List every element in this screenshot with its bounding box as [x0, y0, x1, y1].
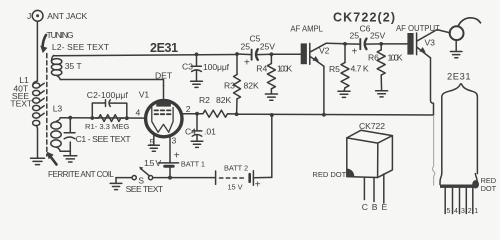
svg-text:R2: R2 [199, 95, 210, 105]
svg-text:4.7 K: 4.7 K [351, 64, 369, 74]
pin 2 lead [182, 113, 198, 115]
svg-text:2: 2 [468, 208, 472, 215]
svg-text:FERRITE ANT COIL: FERRITE ANT COIL [48, 170, 115, 179]
svg-text:SEE TEXT: SEE TEXT [126, 184, 164, 194]
tube V1 2E31 [146, 86, 197, 163]
svg-text:TUNING: TUNING [47, 30, 74, 40]
svg-text:V2: V2 [319, 46, 330, 56]
ground (R5) [338, 91, 350, 97]
filament [152, 108, 173, 133]
svg-text:25V: 25V [370, 31, 385, 41]
wire V2 collector [326, 42, 345, 45]
wire grid (DET) from L2 bottom to tube top [60, 80, 163, 86]
wire mid rail [237, 113, 434, 116]
resistor R6 100K [377, 42, 385, 91]
svg-text:2E31: 2E31 [150, 41, 178, 55]
svg-text:3: 3 [461, 208, 465, 215]
svg-text:E: E [382, 202, 388, 212]
ground (C3) [191, 81, 203, 87]
ground (R6) [376, 91, 388, 97]
svg-text:100μμf: 100μμf [203, 62, 230, 72]
svg-text:25: 25 [241, 41, 251, 51]
svg-text:V3: V3 [425, 38, 436, 48]
capacitor C1 [64, 118, 75, 156]
wire jack stem [36, 21, 38, 81]
battery BATT2 [216, 171, 272, 185]
svg-text:L2- SEE TEXT: L2- SEE TEXT [52, 42, 110, 52]
resistor R3 82K [234, 52, 241, 114]
transistor V3 [407, 30, 448, 58]
svg-text:ANT JACK: ANT JACK [47, 11, 87, 21]
svg-text:100K: 100K [277, 64, 292, 74]
inductor L1 [33, 81, 45, 158]
capacitor C2 [92, 100, 127, 118]
svg-text:L3: L3 [53, 104, 63, 114]
svg-text:4: 4 [136, 108, 141, 118]
wire BATT2 riser [271, 115, 273, 178]
output jack [449, 26, 464, 51]
phone cord curve [458, 18, 481, 27]
svg-text:.01: .01 [204, 127, 216, 137]
wire top rail [54, 55, 237, 56]
svg-text:25V: 25V [260, 41, 275, 51]
svg-text:CK722: CK722 [359, 121, 385, 131]
svg-text:+: + [352, 47, 358, 58]
transistor V2 [301, 43, 327, 66]
node R2/R3 [235, 112, 239, 116]
ground (C4) [191, 141, 203, 147]
svg-text:+: + [255, 180, 261, 191]
svg-text:C6: C6 [360, 24, 371, 34]
ground (pin5) [148, 145, 159, 151]
battery BATT1 [159, 162, 179, 178]
inductor L3 [51, 118, 61, 152]
svg-text:1.5 V: 1.5 V [144, 158, 161, 168]
svg-text:J: J [27, 11, 31, 21]
svg-text:AF OUTPUT: AF OUTPUT [396, 24, 440, 33]
svg-text:82K: 82K [216, 95, 231, 105]
ground (jack) [450, 52, 462, 58]
svg-text:R4: R4 [256, 64, 267, 74]
svg-text:R5: R5 [329, 64, 340, 74]
faint fold line [432, 116, 434, 186]
resistor R1 3.3MEG [96, 115, 124, 122]
svg-text:DOT: DOT [481, 184, 497, 193]
red dot (tube) [472, 180, 479, 188]
ground (L1) [31, 158, 45, 164]
svg-text:82K: 82K [244, 81, 259, 91]
svg-text:4: 4 [454, 208, 458, 215]
svg-text:C3: C3 [182, 62, 193, 72]
plate [156, 102, 171, 107]
wire L3 bottom [60, 150, 70, 152]
capacitor C5 [237, 49, 271, 60]
node C2/R1 right [125, 116, 129, 120]
wire V3 emitter drop [431, 58, 434, 115]
resistor R5 4.7K [341, 42, 349, 91]
grid dashes [155, 110, 171, 114]
wire V3 base [381, 43, 407, 45]
jack J ANT JACK [32, 10, 43, 81]
svg-text:3: 3 [172, 136, 177, 146]
2E31 tube drawing [440, 84, 479, 214]
wire V2 emitter drop [323, 66, 325, 115]
capacitor C3 [192, 53, 202, 82]
svg-text:TEXT: TEXT [10, 99, 33, 109]
inductor L2 35T [51, 55, 61, 79]
svg-text:R6: R6 [368, 53, 379, 63]
svg-text:C: C [362, 202, 368, 212]
CK722 package [347, 130, 393, 203]
ferrite pointer arrow [50, 156, 56, 164]
pin 5 lead [153, 135, 155, 146]
svg-text:BATT 1: BATT 1 [181, 159, 205, 168]
resistor R2 82K [197, 110, 237, 117]
svg-text:25: 25 [350, 31, 360, 41]
svg-text:5: 5 [150, 137, 155, 147]
pin 3 lead [169, 136, 171, 162]
tube pins [444, 188, 446, 214]
svg-text:AF AMPL: AF AMPL [290, 25, 323, 34]
svg-text:+: + [174, 151, 180, 162]
svg-text:2: 2 [186, 104, 191, 114]
svg-text:100K: 100K [388, 53, 403, 63]
svg-text:+: + [244, 58, 250, 69]
svg-text:2E31: 2E31 [447, 72, 471, 82]
node C1 tap [68, 116, 72, 120]
svg-text:BATT 2: BATT 2 [224, 163, 248, 172]
svg-text:CK722(2): CK722(2) [333, 11, 395, 25]
svg-text:C2-100μμf: C2-100μμf [87, 90, 129, 100]
svg-text:C1 - SEE TEXT: C1 - SEE TEXT [76, 134, 132, 144]
tuning arrow [43, 35, 46, 47]
resistor R4 100K [267, 52, 275, 93]
svg-text:5: 5 [447, 208, 451, 215]
svg-text:V1: V1 [139, 90, 150, 100]
svg-text:RED DOT: RED DOT [312, 170, 346, 179]
svg-text:15 V: 15 V [228, 182, 243, 191]
wire V2 base [271, 53, 300, 55]
ground (switch) [110, 178, 122, 190]
svg-text:1: 1 [474, 208, 478, 215]
ground (C1/L3) [64, 156, 77, 162]
svg-text:B: B [372, 202, 378, 212]
ferrite core dashed line [46, 54, 48, 157]
svg-text:DET: DET [155, 71, 173, 81]
wire bottom rail [116, 177, 132, 179]
svg-text:R3: R3 [224, 80, 235, 90]
svg-text:35 T: 35 T [65, 61, 83, 71]
capacitor C6 [345, 39, 381, 50]
capacitor C4 [192, 112, 202, 141]
svg-text:R1- 3.3 MEG: R1- 3.3 MEG [85, 122, 129, 131]
svg-text:C4: C4 [185, 127, 196, 137]
ground (R4) [265, 94, 277, 100]
wire L3 top to tube pin4 [60, 117, 145, 119]
switch S [132, 167, 153, 180]
node C2/R1 left [90, 116, 94, 120]
